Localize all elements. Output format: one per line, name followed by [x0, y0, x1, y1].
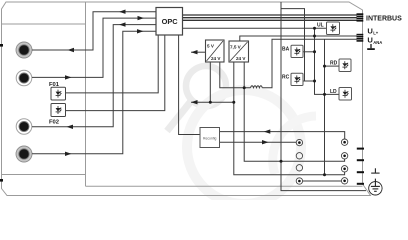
svg-text:ANA: ANA: [373, 40, 382, 45]
svg-text:Reconfig: Reconfig: [203, 137, 216, 141]
svg-text:UL: UL: [317, 23, 324, 29]
svg-text:F02: F02: [49, 120, 59, 126]
svg-text:24 V: 24 V: [211, 56, 221, 61]
svg-text:BA: BA: [282, 46, 290, 52]
svg-text:INTERBUS: INTERBUS: [366, 15, 402, 22]
svg-text:7,5 V: 7,5 V: [230, 45, 242, 50]
svg-text:RC: RC: [282, 75, 290, 81]
svg-text:L+: L+: [373, 31, 379, 36]
svg-text:F01: F01: [49, 82, 60, 88]
svg-text:RD: RD: [330, 60, 338, 66]
svg-text:5 V: 5 V: [207, 44, 215, 49]
svg-text:OPC: OPC: [162, 17, 179, 26]
svg-text:LD: LD: [330, 89, 337, 95]
svg-text:24 V: 24 V: [236, 56, 246, 61]
